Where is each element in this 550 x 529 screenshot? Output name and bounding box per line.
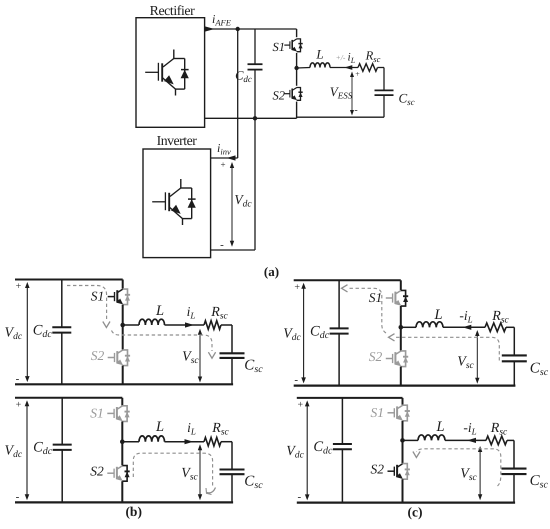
svg-text:-: - [354,105,357,116]
svg-text:S1: S1 [90,405,104,420]
svg-text:S1: S1 [371,405,385,420]
svg-text:S1: S1 [369,290,383,305]
svg-text:-: - [297,491,301,503]
svg-text:+: + [16,281,22,292]
svg-text:-: - [220,239,224,251]
svg-text:S1: S1 [273,40,286,54]
svg-text:S2: S2 [371,462,385,477]
svg-text:-: - [16,373,20,385]
svg-text:+: + [220,160,225,170]
svg-text:(b): (b) [125,504,142,519]
svg-text:L: L [435,419,444,435]
svg-text:(c): (c) [408,505,423,520]
svg-text:L: L [315,47,323,62]
svg-text:L: L [155,419,164,435]
svg-text:Rectifier: Rectifier [150,3,195,18]
svg-text:S2: S2 [369,349,383,364]
svg-text:+: + [355,70,360,79]
svg-text:Inverter: Inverter [157,133,198,148]
svg-text:L: L [433,307,442,323]
svg-text:(a): (a) [264,264,279,279]
svg-text:-: - [294,374,298,386]
svg-text:+: + [16,399,22,410]
svg-text:-: - [16,491,20,503]
svg-text:S2: S2 [273,89,286,103]
svg-text:S2: S2 [90,464,104,479]
svg-text:L: L [155,303,164,319]
svg-text:S1: S1 [91,289,105,304]
svg-text:S2: S2 [91,348,105,363]
svg-text:+: + [297,399,303,410]
svg-text:+: + [294,282,300,293]
svg-text:+/-: +/- [336,53,346,62]
